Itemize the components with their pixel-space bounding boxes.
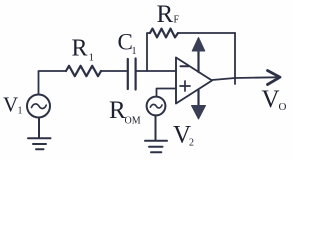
capacitor C1 (128, 59, 136, 90)
svg-text:F: F (174, 15, 180, 26)
wire V1 to R1 (39, 71, 67, 95)
source V2 (147, 97, 166, 116)
label ROM (109, 97, 141, 127)
svg-text:1: 1 (132, 46, 137, 57)
label C1 (118, 30, 137, 58)
svg-text:R: R (72, 36, 88, 62)
svg-text:V: V (262, 86, 280, 113)
svg-text:V: V (3, 93, 18, 117)
svg-text:R: R (157, 1, 174, 28)
label RF (157, 1, 180, 28)
label V2 (173, 122, 194, 149)
source V1 (27, 95, 50, 118)
wire feedback left vertical (147, 33, 150, 71)
svg-text:R: R (109, 97, 126, 124)
wire feedback top (178, 32, 235, 34)
label VO (262, 86, 287, 113)
resistor RF (150, 29, 178, 38)
svg-text:2: 2 (189, 138, 194, 149)
op-amp U1 (176, 58, 212, 104)
wire R1 to C1 (101, 70, 127, 72)
svg-text:1: 1 (18, 106, 23, 117)
svg-text:1: 1 (89, 52, 95, 64)
ground (V1) (28, 118, 51, 150)
positive supply arrow (192, 38, 205, 73)
ground (V2) (145, 116, 167, 153)
svg-text:OM: OM (125, 116, 141, 127)
resistor R1 (66, 66, 101, 76)
wire V2 to op-amp noninverting input (157, 89, 177, 97)
wire output (212, 77, 276, 80)
negative supply arrow (192, 90, 206, 119)
label V1 (3, 93, 23, 117)
wire C1 to op-amp inverting input (136, 70, 176, 72)
label R1 (72, 36, 95, 64)
output arrowhead (268, 71, 281, 85)
wire feedback right vertical (234, 33, 236, 84)
svg-text:O: O (279, 101, 287, 113)
